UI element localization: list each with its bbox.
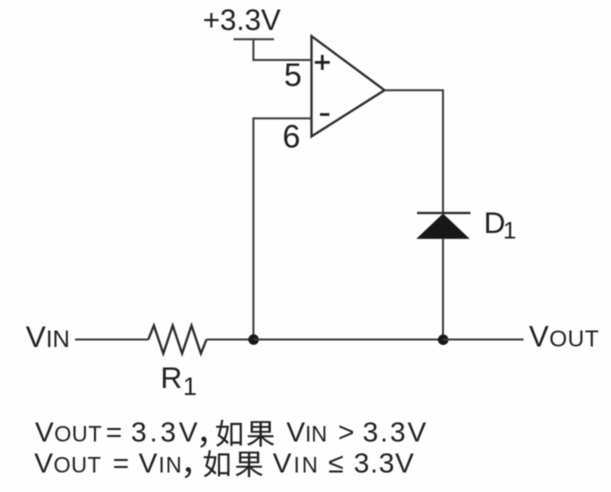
svg-text:3.3V: 3.3V — [363, 416, 429, 447]
hanzi GUO (line 1) — [247, 421, 274, 447]
svg-text:5: 5 — [284, 57, 302, 93]
hanzi GUO (line 2) — [235, 452, 262, 478]
wire op-amp output to diode cathode — [385, 90, 444, 213]
svg-text:3.3V: 3.3V — [354, 447, 415, 478]
svg-text:VOUT: VOUT — [529, 321, 599, 354]
svg-text:VOUT: VOUT — [34, 447, 101, 478]
svg-text:VIN: VIN — [273, 447, 320, 478]
svg-text:=: = — [113, 447, 129, 478]
svg-text:1: 1 — [183, 373, 197, 401]
svg-text:VOUT: VOUT — [35, 416, 102, 447]
wire power rail to op-amp pin 5 — [253, 39, 311, 60]
diode D1 body — [418, 214, 469, 238]
power rail bar — [234, 38, 275, 40]
svg-text:VIN: VIN — [139, 447, 183, 478]
op-amp - input marker — [320, 113, 329, 116]
svg-text:≤: ≤ — [328, 447, 343, 478]
node B junction — [438, 335, 449, 346]
svg-text:6: 6 — [283, 119, 301, 155]
wire node A to node B — [253, 339, 443, 341]
node A junction — [248, 334, 259, 345]
svg-text:=: = — [106, 416, 122, 447]
op-amp U1 — [312, 36, 385, 136]
svg-text:3.3V: 3.3V — [131, 416, 201, 447]
svg-text:R: R — [161, 362, 183, 395]
hanzi RU (line 1) — [216, 420, 242, 447]
wire diode anode to node B — [442, 238, 444, 339]
svg-text:+3.3V: +3.3V — [203, 4, 281, 37]
wire R1 to node A — [207, 339, 254, 341]
wire VIN to R1 — [75, 339, 148, 341]
svg-text:VIN: VIN — [26, 321, 70, 354]
wire op-amp pin 6 to node A — [253, 118, 311, 339]
hanzi RU (line 2) — [204, 450, 230, 477]
svg-text:1: 1 — [503, 218, 516, 245]
wire node B to VOUT — [443, 339, 524, 341]
svg-text:>: > — [338, 416, 354, 447]
svg-text:VIN: VIN — [286, 416, 327, 447]
diode D1 cathode bar — [417, 212, 471, 214]
full-width comma (line 2) — [185, 467, 191, 478]
full-width comma (line 1) — [200, 437, 206, 448]
resistor R1 — [148, 326, 206, 354]
op-amp + input marker — [315, 55, 330, 70]
